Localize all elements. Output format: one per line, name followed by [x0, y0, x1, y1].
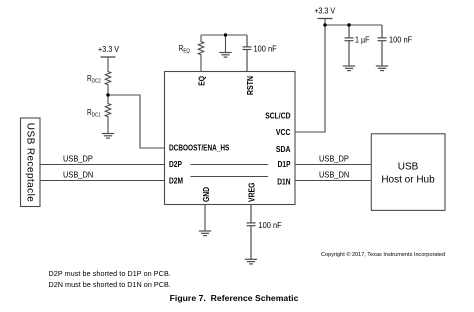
svg-text:USB: USB [398, 162, 419, 173]
wire USB_DP (receptacle to D2P) [40, 164, 165, 166]
svg-text:USB_DN: USB_DN [319, 170, 350, 180]
svg-text:1 µF: 1 µF [355, 35, 370, 44]
ground (below C_VREG) [245, 259, 257, 264]
svg-text:+3.3 V: +3.3 V [314, 6, 336, 15]
svg-text:USB_DN: USB_DN [63, 170, 94, 180]
capacitor C2 100nF [378, 25, 387, 66]
junction node EQ rail ground [224, 33, 227, 36]
capacitor C1 1uF [345, 25, 354, 66]
svg-text:EQ: EQ [197, 76, 207, 86]
svg-text:REQ: REQ [179, 43, 190, 54]
svg-text:DCBOOST/ENA_HS: DCBOOST/ENA_HS [169, 143, 230, 153]
svg-text:USB_DP: USB_DP [63, 154, 93, 164]
ground (below C1) [343, 66, 355, 71]
ground (GND pin) [199, 231, 211, 236]
svg-text:Host or Hub: Host or Hub [381, 175, 435, 186]
USB Receptacle box [21, 118, 41, 207]
svg-text:Copyright © 2017, Texas Instru: Copyright © 2017, Texas Instruments Inco… [321, 251, 445, 258]
svg-text:100 nF: 100 nF [389, 35, 412, 44]
svg-text:D1P: D1P [278, 159, 291, 169]
USB Host or Hub box [371, 134, 445, 211]
svg-text:VCC: VCC [276, 128, 291, 138]
capacitor C_VREG 100nF [247, 205, 256, 260]
wire EQ/RSTN top rail [201, 34, 247, 36]
wire USB_DN (receptacle to D2M) [40, 180, 165, 182]
svg-text:D2P: D2P [169, 159, 182, 169]
wire internal D2P-D1P passthrough [191, 164, 269, 166]
svg-text:GND: GND [201, 186, 211, 202]
wire USB_DN (D1N to host) [295, 180, 371, 182]
svg-text:VREG: VREG [247, 182, 257, 202]
wire USB_DP (D1P to host) [295, 164, 371, 166]
wire DCBOOST/ENA_HS net [108, 95, 165, 148]
svg-text:D2N must be shorted to D1N on: D2N must be shorted to D1N on PCB. [49, 280, 171, 289]
svg-text:RDC2: RDC2 [87, 73, 101, 84]
wire cap branch [325, 24, 382, 26]
svg-text:D2P must be shorted to D1P on: D2P must be shorted to D1P on PCB. [49, 269, 171, 278]
wire internal D2M-D1N passthrough [191, 176, 269, 178]
IC U1 body [165, 72, 296, 205]
svg-text:USB Receptacle: USB Receptacle [25, 123, 36, 202]
svg-text:100 nF: 100 nF [259, 221, 282, 230]
capacitor C_RSTN 100nF [243, 35, 252, 72]
ground (below C2) [376, 66, 388, 71]
svg-text:RSTN: RSTN [246, 76, 256, 95]
power rail +3.3V (right) [318, 18, 333, 20]
svg-text:RDC1: RDC1 [87, 107, 101, 118]
resistor RDC2 [105, 57, 110, 95]
svg-text:SDA: SDA [276, 145, 291, 155]
resistor RDC1 [105, 95, 110, 134]
resistor REQ [198, 35, 203, 72]
junction node 1uF cap [347, 23, 350, 26]
svg-text:D2M: D2M [169, 176, 183, 186]
ground (below RDC1) [102, 134, 114, 139]
junction node RDC divider [106, 93, 109, 96]
wire ground stem (EQ rail) [225, 35, 227, 53]
wire GND pin [204, 205, 206, 232]
svg-text:D1N: D1N [277, 177, 290, 187]
power rail +3.3V (left) [101, 56, 116, 58]
svg-text:USB_DP: USB_DP [319, 154, 349, 164]
svg-text:+3.3 V: +3.3 V [98, 45, 120, 54]
wire VCC net [295, 19, 325, 133]
svg-text:100 nF: 100 nF [254, 44, 277, 53]
svg-text:Figure 7. Reference Schematic: Figure 7. Reference Schematic [170, 293, 299, 303]
svg-text:SCL/CD: SCL/CD [265, 111, 291, 121]
ground (EQ rail) [219, 53, 231, 58]
junction node VCC branch [323, 23, 326, 26]
